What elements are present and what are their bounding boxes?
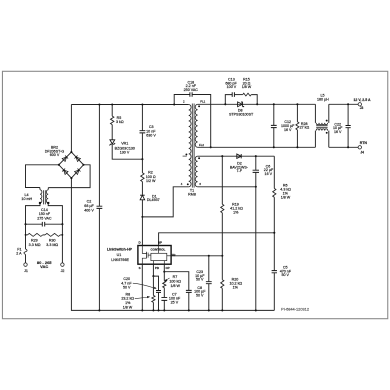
svg-text:LinkSwitch-HP: LinkSwitch-HP: [107, 248, 133, 252]
transformer T1 secondary phase dot: [198, 105, 200, 107]
capacitor C22: [347, 104, 349, 125]
svg-text:50 V: 50 V: [281, 273, 289, 277]
resistor R2: [141, 159, 143, 173]
svg-text:3.3 MΩ: 3.3 MΩ: [46, 243, 58, 247]
svg-text:12 V, 2.5 A: 12 V, 2.5 A: [353, 98, 371, 102]
transformer T1 primary bottom phase dot: [187, 183, 189, 185]
svg-text:FL1: FL1: [200, 100, 205, 104]
border frame: [2, 71, 387, 318]
wire CP pin: [163, 264, 165, 272]
svg-text:DL4937: DL4937: [147, 198, 160, 202]
svg-text:LNK6766E: LNK6766E: [111, 258, 129, 262]
transformer T1 core: [191, 104, 193, 188]
svg-text:50 V: 50 V: [196, 293, 204, 297]
svg-text:16 V: 16 V: [265, 172, 273, 176]
capacitor C7: [161, 297, 167, 300]
wire 12V rail to J3: [329, 103, 358, 105]
resistor R30: [43, 234, 45, 236]
bridge BR2 corner junctions: [70, 151, 72, 153]
wire AC right from bridge to L4: [48, 165, 90, 188]
wire drain to IC D pin: [141, 217, 143, 246]
wire RTN rail to J4: [329, 146, 358, 148]
svg-text:FL2: FL2: [199, 143, 204, 147]
svg-text:U1: U1: [117, 253, 122, 257]
svg-text:S: S: [139, 266, 141, 270]
svg-text:400 V: 400 V: [84, 208, 94, 212]
svg-text:VAC: VAC: [40, 264, 48, 269]
svg-text:CONTROL: CONTROL: [150, 248, 165, 252]
transformer T1 primary winding: [189, 105, 191, 187]
wire L4 right to input right rail: [48, 203, 62, 224]
svg-text:180 µH: 180 µH: [317, 98, 329, 102]
svg-text:J4: J4: [360, 151, 364, 155]
wire S pin to ground: [141, 264, 143, 310]
bridge rectifier BR2 diamond: [59, 152, 84, 178]
bridge BR2 diode bottom-right: [75, 169, 81, 175]
svg-text:VR1: VR1: [121, 142, 128, 146]
svg-text:CP: CP: [166, 266, 170, 270]
capacitor C6 bias: [255, 156, 257, 170]
terminal J1: [24, 263, 27, 266]
svg-text:J1: J1: [24, 269, 28, 273]
capacitor C20: [153, 276, 158, 290]
transformer T1 primary phase dot: [183, 155, 187, 157]
svg-text:16 V: 16 V: [334, 130, 342, 134]
svg-text:600 V: 600 V: [50, 153, 60, 157]
capacitor C18 Y-cap: [174, 95, 190, 105]
terminal J2: [61, 263, 64, 266]
svg-text:250 VAC: 250 VAC: [184, 88, 199, 92]
wire secondary 12V rail: [198, 103, 316, 105]
leader arrow R7: [166, 278, 170, 280]
svg-text:50 V: 50 V: [196, 278, 204, 282]
capacitor C2 bulk: [98, 105, 100, 206]
svg-text:10 mH: 10 mH: [21, 197, 32, 201]
svg-text:1/8 W: 1/8 W: [281, 195, 291, 199]
capacitor C23: [208, 256, 210, 282]
svg-text:7-F: 7-F: [236, 169, 242, 173]
svg-text:68 µF: 68 µF: [84, 204, 94, 208]
transformer T1 bias phase dot: [198, 157, 200, 159]
inductor L5 output choke: [314, 104, 316, 123]
bridge BR2 diode bottom-left: [62, 169, 68, 175]
svg-text:275 VAC: 275 VAC: [37, 216, 52, 220]
wire AC left from bridge to L4: [26, 165, 59, 188]
capacitor C8: [186, 290, 192, 292]
fuse F1: [24, 249, 27, 255]
svg-text:25 V: 25 V: [171, 301, 179, 305]
svg-text:16 V: 16 V: [284, 128, 292, 132]
svg-text:2 A: 2 A: [16, 252, 22, 256]
svg-text:100 kΩ: 100 kΩ: [169, 279, 181, 283]
zener VR1: [110, 140, 115, 144]
wire input left rail down: [25, 224, 27, 249]
wire bias rail: [198, 155, 275, 157]
leader arrow C20: [133, 283, 155, 288]
svg-text:J2: J2: [61, 269, 65, 273]
bridge BR2 diode top-left: [62, 156, 68, 162]
wire PD pin: [152, 264, 154, 276]
resistor R6 BP feed: [273, 156, 275, 188]
wire FB pin: [171, 255, 222, 257]
resistor R29: [26, 234, 28, 236]
svg-text:RM8: RM8: [188, 192, 196, 196]
resistor R5 clamp: [111, 105, 113, 117]
wire secondary RTN rail: [198, 146, 316, 148]
common-mode choke L4: [39, 188, 41, 190]
svg-text:R7: R7: [173, 275, 178, 279]
resistor R19 upper divider: [221, 156, 223, 204]
resistor R8: [152, 276, 154, 295]
svg-text:1%: 1%: [233, 211, 239, 215]
diode D2 bias rectifier: [237, 154, 241, 158]
svg-text:100 V: 100 V: [227, 85, 237, 89]
IC U1 internal block: [151, 253, 167, 260]
svg-text:1/8 W: 1/8 W: [170, 284, 180, 288]
leader arrow R8: [135, 297, 148, 299]
svg-text:27 kΩ: 27 kΩ: [300, 126, 310, 130]
snubber loop C13 R15: [225, 95, 232, 105]
svg-text:1/8 W: 1/8 W: [242, 85, 252, 89]
wire bias ground drop: [255, 187, 257, 311]
svg-text:C2: C2: [87, 200, 92, 204]
IC U1 internal mosfet: [142, 246, 146, 254]
svg-text:BP: BP: [158, 241, 162, 245]
svg-text:1/2 W: 1/2 W: [146, 179, 156, 183]
svg-text:630 V: 630 V: [146, 133, 156, 137]
wire input right rail down: [61, 224, 63, 263]
bridge BR2 diode top-right: [75, 156, 81, 162]
transformer T1 secondary winding FL: [195, 104, 197, 147]
wire BP supply: [159, 233, 275, 246]
diode D1: [140, 195, 145, 200]
resistor R7: [163, 272, 165, 281]
svg-text:PI-6844-120312: PI-6844-120312: [281, 307, 309, 312]
wire CP branch to C8: [164, 272, 189, 290]
svg-text:3.3 MΩ: 3.3 MΩ: [29, 243, 41, 247]
wire primary top rail: [71, 104, 188, 106]
wire rail corner to bridge: [70, 105, 72, 153]
wire drain node to transformer pin 4: [142, 187, 188, 217]
wire bias return rail pin 6: [198, 186, 256, 188]
wire L4 left to input left rail: [26, 203, 41, 224]
resistor R28 preload: [296, 104, 298, 122]
terminal J3 output: [358, 103, 361, 106]
IC U1 LinkSwitch-HP box: [138, 246, 171, 265]
capacitor C5: [272, 271, 277, 273]
capacitor C14 X-cap: [26, 223, 43, 225]
IC U1 internal pin stubs: [158, 246, 160, 254]
svg-text:3 kΩ: 3 kΩ: [116, 120, 124, 124]
wire bridge bottom to primary ground rail: [71, 178, 274, 310]
diode D8 output rectifier: [238, 102, 243, 107]
svg-text:130 V: 130 V: [120, 151, 130, 155]
svg-text:1/8 W: 1/8 W: [123, 305, 133, 309]
svg-text:50 V: 50 V: [123, 286, 131, 290]
transformer T1 bias winding: [195, 156, 197, 187]
resistor R20 lower divider: [221, 256, 223, 280]
capacitor C12 output: [273, 104, 275, 125]
terminal J4 return: [358, 146, 361, 149]
svg-text:RTN: RTN: [360, 141, 368, 145]
svg-text:J3: J3: [360, 106, 364, 110]
svg-text:STPS30100ST: STPS30100ST: [229, 112, 254, 116]
svg-text:1%: 1%: [233, 286, 239, 290]
capacitor C3 clamp: [141, 105, 143, 131]
svg-text:R8: R8: [125, 292, 130, 296]
